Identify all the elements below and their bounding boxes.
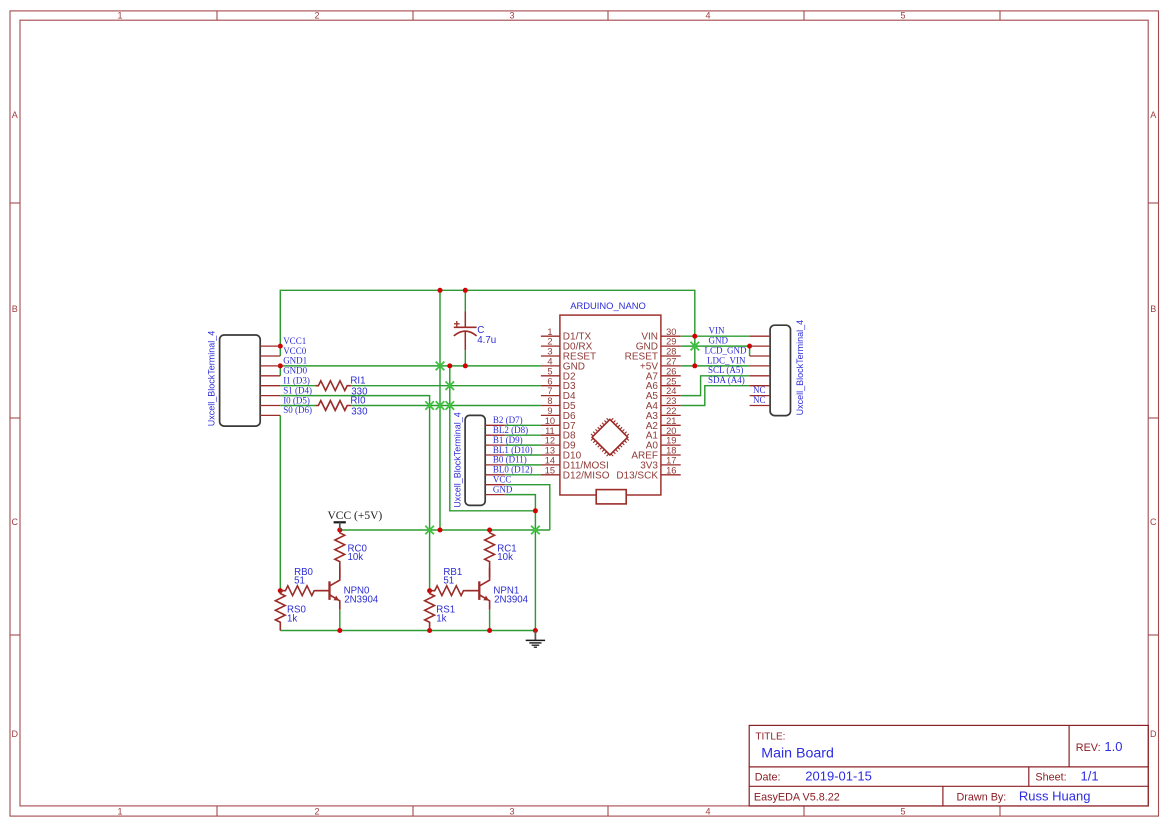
- svg-text:10k: 10k: [497, 552, 513, 563]
- svg-text:D13/SCK: D13/SCK: [616, 470, 658, 481]
- wire RI1 to Arduino pin 6 D3: [351, 385, 541, 387]
- svg-text:30: 30: [666, 327, 676, 337]
- junction top rail to v1: [438, 288, 443, 293]
- resistor RB1 51 to NPN1 base: [430, 586, 479, 596]
- svg-text:BL2 (D8): BL2 (D8): [493, 425, 528, 435]
- svg-text:SDA (A4): SDA (A4): [708, 375, 745, 385]
- wire middle terminal B0 to Arduino pin 14: [505, 464, 541, 466]
- svg-text:5: 5: [900, 807, 905, 817]
- svg-text:11: 11: [545, 426, 555, 436]
- frame row letters right: [1150, 110, 1157, 739]
- svg-text:19: 19: [666, 436, 676, 446]
- svg-text:GND0: GND0: [283, 366, 307, 376]
- svg-text:2: 2: [314, 807, 319, 817]
- ground symbol: [526, 631, 545, 648]
- svg-text:2: 2: [547, 337, 552, 347]
- svg-text:2N3904: 2N3904: [494, 594, 529, 605]
- svg-text:A: A: [1150, 110, 1156, 120]
- junction right terminal GND to LCD_GND: [747, 344, 752, 349]
- junction capacitor bottom to GND row: [463, 363, 468, 368]
- frame column numbers top: [117, 11, 905, 21]
- svg-text:A: A: [12, 110, 18, 120]
- svg-text:1: 1: [117, 11, 122, 21]
- svg-text:4: 4: [705, 807, 710, 817]
- svg-text:9: 9: [547, 406, 552, 416]
- svg-text:27: 27: [666, 357, 676, 367]
- frame row letters left: [12, 110, 19, 739]
- svg-text:Drawn By:: Drawn By:: [957, 791, 1007, 803]
- svg-text:BL1 (D10): BL1 (D10): [493, 445, 533, 455]
- wire right terminal GND down to LCD_GND: [749, 346, 751, 356]
- junction RB0/RS0/S0 node: [278, 588, 283, 593]
- wire GND1 row to Arduino pin 4 GND: [280, 365, 541, 367]
- wire RI0 to Arduino pin 8 D5: [351, 405, 541, 407]
- resistor RS1 1k base pulldown: [425, 591, 435, 631]
- junction middle terminal GND tee: [533, 508, 538, 513]
- resistor RC1 10k collector load: [485, 530, 495, 578]
- svg-text:12: 12: [545, 436, 555, 446]
- svg-text:20: 20: [666, 426, 676, 436]
- power flag VCC (+5V): [334, 522, 346, 530]
- svg-text:RI1: RI1: [350, 376, 365, 387]
- svg-text:1k: 1k: [436, 613, 446, 624]
- svg-text:25: 25: [666, 376, 676, 386]
- left terminal pins 1-8: [260, 346, 280, 415]
- ARDUINO_NANO left pins 1-15: [541, 336, 560, 475]
- svg-text:26: 26: [666, 366, 676, 376]
- svg-text:8: 8: [547, 396, 552, 406]
- ARDUINO_NANO right pins 16-30: [661, 336, 681, 475]
- junction top rail to capacitor branch: [463, 288, 468, 293]
- svg-text:VCC1: VCC1: [283, 336, 306, 346]
- wire top rail to capacitor C top: [464, 290, 466, 311]
- svg-text:BL0 (D12): BL0 (D12): [493, 465, 533, 475]
- ARDUINO_NANO right pin numbers: [666, 327, 676, 476]
- svg-text:6: 6: [547, 376, 552, 386]
- transistor Q NPN0 2N3904: [316, 568, 340, 610]
- svg-text:Russ Huang: Russ Huang: [1019, 788, 1091, 803]
- ARDUINO_NANO chip diamond glyph: [591, 418, 629, 456]
- crossing S1 vertical over +5V rail: [425, 526, 434, 535]
- crossing v1 over D5 row: [436, 401, 445, 410]
- junction VCC symbol / RC0 top: [337, 528, 342, 533]
- wire Arduino +5V to right terminal LDC_VIN: [681, 365, 750, 367]
- svg-text:TITLE:: TITLE:: [755, 732, 785, 743]
- svg-text:13: 13: [545, 446, 555, 456]
- crossing v2 over D3 row: [446, 381, 455, 390]
- svg-text:B0 (D11): B0 (D11): [493, 455, 527, 465]
- junction RB1/RS1/S1 node: [427, 588, 432, 593]
- ARDUINO_NANO usb rectangle glyph: [596, 490, 626, 504]
- svg-text:C: C: [477, 325, 484, 336]
- svg-text:3: 3: [509, 11, 514, 21]
- wire GND1 to GND0 vertical: [279, 366, 281, 376]
- resistor RC0 10k collector load: [335, 530, 345, 578]
- wire capacitor C bottom to GND row: [464, 350, 466, 366]
- svg-text:24: 24: [666, 386, 676, 396]
- right terminal pins 1-8: [750, 336, 771, 405]
- svg-text:B1 (D9): B1 (D9): [493, 435, 523, 445]
- svg-text:GND: GND: [709, 336, 729, 346]
- wire middle terminal B1 to Arduino pin 12: [505, 444, 541, 446]
- wire S0 (D6) down to NPN0 base node: [279, 415, 281, 590]
- title block: [749, 725, 1148, 806]
- wire +5V rail across transistor circuits: [340, 529, 550, 531]
- connector J left Uxcell_BlockTerminal_4 body: [220, 335, 261, 426]
- svg-text:Main Board: Main Board: [761, 745, 834, 761]
- svg-text:21: 21: [666, 416, 676, 426]
- wire S1 (D4) across and down to NPN1 base node: [280, 396, 429, 591]
- wire Arduino pin 29 GND to right terminal GND: [681, 345, 750, 347]
- svg-text:1k: 1k: [287, 613, 297, 624]
- svg-text:VCC (+5V): VCC (+5V): [328, 510, 383, 522]
- middle terminal pins 1-8: [485, 425, 505, 494]
- svg-text:LDC_VIN: LDC_VIN: [707, 355, 746, 365]
- wire NPN1 emitter to ground rail: [489, 610, 491, 631]
- svg-text:7: 7: [547, 386, 552, 396]
- junction NPN1 emitter to rail: [487, 628, 492, 633]
- svg-text:B: B: [1150, 304, 1156, 314]
- svg-text:16: 16: [666, 465, 676, 475]
- svg-text:51: 51: [294, 576, 305, 587]
- svg-text:LCD_GND: LCD_GND: [705, 345, 747, 355]
- crossing v2 over D5 row: [446, 401, 455, 410]
- svg-text:S1 (D4): S1 (D4): [283, 385, 312, 395]
- svg-text:D12/MISO: D12/MISO: [563, 470, 610, 481]
- svg-text:15: 15: [545, 465, 555, 475]
- wire middle terminal B2 to Arduino pin 10: [505, 424, 541, 426]
- wire top rail down to +5V rail (v1): [439, 290, 441, 530]
- svg-text:23: 23: [666, 396, 676, 406]
- svg-text:VCC0: VCC0: [283, 346, 307, 356]
- crossing v1 over GND row: [436, 362, 445, 371]
- svg-text:Sheet:: Sheet:: [1035, 772, 1066, 784]
- junction v1 to +5V rail: [438, 528, 443, 533]
- svg-text:EasyEDA V5.8.22: EasyEDA V5.8.22: [754, 791, 840, 803]
- svg-text:2: 2: [314, 11, 319, 21]
- wire I1 (D3) pin to RI1: [280, 385, 315, 387]
- svg-text:S0 (D6): S0 (D6): [283, 405, 312, 415]
- wire bottom ground rail: [280, 630, 535, 632]
- IC U1 ARDUINO_NANO body: [560, 315, 661, 495]
- svg-text:VIN: VIN: [709, 326, 725, 336]
- svg-text:Uxcell_BlockTerminal_4: Uxcell_BlockTerminal_4: [453, 412, 463, 508]
- capacitor C 4.7u: [454, 312, 477, 351]
- junction ground rail end: [533, 628, 538, 633]
- svg-text:NC: NC: [753, 395, 766, 405]
- svg-text:B: B: [12, 304, 18, 314]
- ARDUINO_NANO left pin numbers: [545, 327, 555, 476]
- svg-text:17: 17: [666, 456, 676, 466]
- svg-text:10: 10: [545, 416, 555, 426]
- junction VCC1 pin to +5V vertical: [278, 344, 283, 349]
- svg-text:5: 5: [900, 11, 905, 21]
- svg-text:22: 22: [666, 406, 676, 416]
- crossing S1 vertical over D5 row: [425, 401, 434, 410]
- svg-text:VCC: VCC: [493, 475, 512, 485]
- svg-text:330: 330: [351, 407, 368, 418]
- svg-text:NC: NC: [753, 385, 766, 395]
- frame column numbers bottom: [117, 807, 905, 817]
- svg-text:1: 1: [117, 807, 122, 817]
- crossing right vertical over GND row: [691, 342, 700, 351]
- svg-text:RI0: RI0: [350, 396, 366, 407]
- junction VIN row junction: [692, 334, 697, 339]
- transistor Q NPN1 2N3904: [466, 568, 490, 610]
- svg-text:3: 3: [509, 807, 514, 817]
- svg-text:3: 3: [547, 347, 552, 357]
- wire Arduino VIN to right terminal VIN: [681, 335, 750, 337]
- crossing GND vertical over +5V rail: [531, 526, 540, 535]
- svg-text:SCL (A5): SCL (A5): [708, 365, 743, 375]
- svg-text:C: C: [12, 517, 19, 527]
- svg-text:GND1: GND1: [283, 356, 307, 366]
- junction NPN0 emitter to rail: [337, 628, 342, 633]
- junction RC1 top to +5V rail: [487, 528, 492, 533]
- ARDUINO_NANO right pin names: [616, 332, 658, 482]
- junction RS1 bottom to rail: [427, 628, 432, 633]
- wire Arduino A4 up to right terminal SDA (A4): [681, 386, 750, 406]
- wire middle terminal BL2 to Arduino pin 11: [505, 434, 541, 436]
- svg-text:D: D: [12, 729, 19, 739]
- svg-text:18: 18: [666, 446, 676, 456]
- ARDUINO_NANO left pin names: [563, 332, 610, 482]
- wire NPN0 emitter to ground rail: [339, 610, 341, 631]
- wire Arduino A5 up to right terminal SCL (A5): [681, 376, 750, 396]
- svg-text:Uxcell_BlockTerminal_4: Uxcell_BlockTerminal_4: [795, 320, 805, 416]
- svg-text:29: 29: [666, 337, 676, 347]
- svg-text:1: 1: [547, 327, 552, 337]
- resistor RI1 330 between I1 (D3) and Arduino D3: [315, 381, 351, 391]
- wire GND net down from GND row to middle terminal GND (v2): [450, 366, 536, 511]
- svg-text:5: 5: [547, 366, 552, 376]
- svg-text:I0 (D5): I0 (D5): [283, 395, 310, 405]
- junction +5V row junction: [692, 363, 697, 368]
- resistor RB0 51 to NPN0 base: [280, 586, 329, 596]
- svg-text:1.0: 1.0: [1104, 739, 1122, 754]
- svg-text:REV:: REV:: [1076, 742, 1101, 754]
- wire middle terminal BL1 to Arduino pin 13: [505, 454, 541, 456]
- svg-text:4: 4: [547, 357, 552, 367]
- wire I0 (D5) pin to RI0: [280, 405, 315, 407]
- wire middle terminal BL0 to Arduino pin 15: [505, 474, 541, 476]
- wire middle terminal GND down to bottom ground rail: [505, 495, 536, 631]
- svg-text:ARDUINO_NANO: ARDUINO_NANO: [570, 300, 646, 311]
- svg-text:10k: 10k: [348, 552, 364, 563]
- svg-text:B2 (D7): B2 (D7): [493, 415, 523, 425]
- resistor RS0 1k base pulldown: [275, 591, 285, 631]
- svg-text:28: 28: [666, 347, 676, 357]
- svg-text:GND: GND: [493, 484, 513, 494]
- resistor RI0 330 between I0 (D5) and Arduino D5: [315, 401, 351, 411]
- svg-text:Uxcell_BlockTerminal_4: Uxcell_BlockTerminal_4: [206, 331, 216, 427]
- wire top +5V rail from VCC0 pin up across to right vertical down to +5V pin row: [280, 290, 695, 366]
- svg-text:4: 4: [705, 11, 710, 21]
- connector J right Uxcell_BlockTerminal_4 body: [770, 325, 790, 415]
- svg-text:1/1: 1/1: [1081, 769, 1099, 784]
- svg-text:51: 51: [443, 576, 454, 587]
- junction GND1 pin junction: [278, 363, 283, 368]
- wire middle terminal VCC right and down to +5V rail: [505, 485, 550, 530]
- svg-text:C: C: [1150, 517, 1157, 527]
- connector J middle Uxcell_BlockTerminal_4 body: [465, 415, 485, 505]
- svg-text:14: 14: [545, 456, 555, 466]
- junction GND row to v2: [447, 363, 452, 368]
- svg-text:D: D: [1150, 729, 1157, 739]
- svg-text:I1 (D3): I1 (D3): [283, 376, 310, 386]
- svg-text:4.7u: 4.7u: [477, 335, 496, 346]
- svg-text:2019-01-15: 2019-01-15: [805, 769, 872, 784]
- svg-text:2N3904: 2N3904: [344, 594, 379, 605]
- svg-text:Date:: Date:: [755, 772, 781, 784]
